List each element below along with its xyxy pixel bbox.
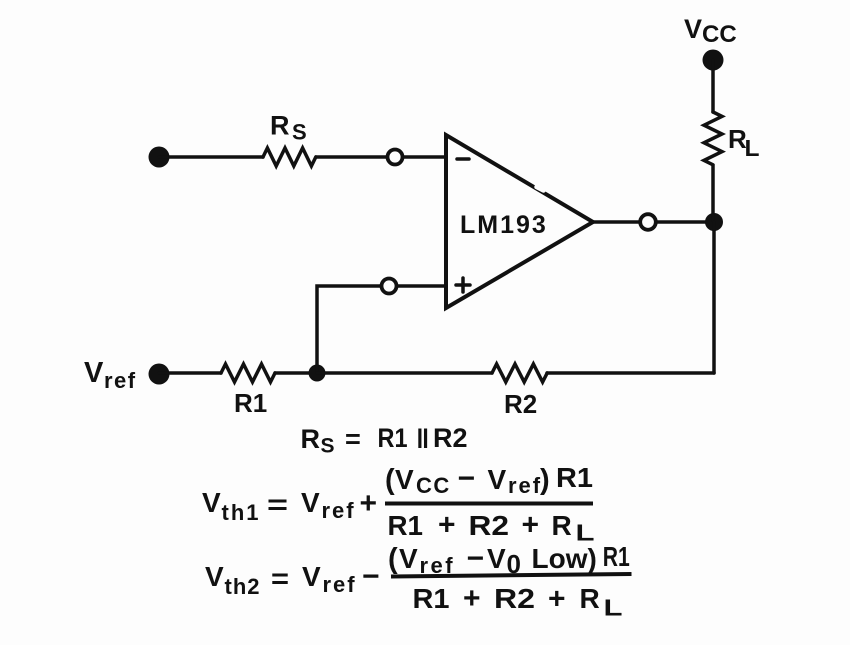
svg-text:=: = (267, 489, 288, 520)
wire Vref to R1 (159, 371, 221, 375)
svg-text:R2: R2 (494, 583, 535, 614)
svg-text:V: V (399, 543, 418, 574)
svg-text:S: S (292, 120, 307, 145)
svg-text:R1: R1 (388, 510, 424, 541)
label RL (728, 124, 760, 161)
equation RS = R1 parallel R2 (301, 423, 468, 458)
label R1 (234, 388, 267, 418)
resistor R1 (221, 364, 275, 382)
label R2 (504, 389, 537, 419)
svg-text:R: R (580, 583, 600, 614)
wire input to RS (159, 155, 263, 159)
svg-text:L: L (745, 135, 760, 161)
svg-text:V: V (684, 14, 702, 44)
wire pin to op-amp plus (397, 284, 446, 288)
svg-text:R1: R1 (234, 388, 267, 418)
svg-text:R1: R1 (413, 583, 450, 614)
svg-text:+: + (522, 509, 540, 542)
output node junction (705, 213, 723, 231)
svg-text:ref: ref (104, 368, 137, 393)
wire VCC to RL (711, 60, 715, 112)
svg-text:L: L (604, 595, 623, 621)
inverting input pin (388, 150, 403, 165)
svg-text:R: R (270, 111, 290, 141)
wire RL to node (711, 166, 715, 222)
input terminal dot (149, 147, 170, 168)
svg-text:=: = (271, 563, 289, 594)
svg-text:R2: R2 (433, 423, 468, 453)
svg-text:−: − (467, 542, 485, 575)
resistor RL (704, 112, 722, 165)
svg-text:CC: CC (702, 21, 737, 48)
svg-text:R: R (301, 424, 321, 454)
svg-text:V: V (488, 464, 507, 495)
svg-text:LM193: LM193 (460, 211, 548, 239)
svg-text:−: − (362, 560, 380, 593)
svg-text:L: L (576, 520, 595, 546)
svg-text:‖: ‖ (416, 424, 429, 454)
label Vref (84, 357, 137, 393)
equation Vth2 (205, 541, 632, 621)
wire R1 to node A (275, 371, 317, 375)
svg-text:Low): Low) (532, 543, 597, 574)
wire output pin to node (657, 220, 714, 224)
resistor R2 (492, 364, 547, 382)
equation Vth1 (202, 462, 595, 546)
minus sign (457, 157, 469, 161)
svg-text:=: = (345, 424, 361, 454)
output pin circle (640, 214, 656, 230)
svg-text:+: + (463, 582, 481, 615)
svg-text:th1: th1 (222, 500, 261, 525)
svg-text:(: ( (388, 543, 398, 575)
resistor RS (263, 148, 316, 166)
svg-text:R1: R1 (556, 462, 593, 493)
svg-text:R1: R1 (378, 423, 408, 453)
svg-text:S: S (321, 435, 335, 458)
svg-text:V: V (202, 487, 221, 518)
svg-text:th2: th2 (225, 574, 261, 599)
scan gap on triangle edge (537, 187, 544, 191)
Vref terminal dot (149, 364, 170, 385)
label VCC (684, 14, 737, 48)
wire RS to inverting pin (316, 155, 387, 159)
svg-text:R2: R2 (469, 510, 510, 541)
noninverting input pin (382, 279, 397, 294)
wire pin to op-amp (403, 155, 446, 159)
VCC terminal dot (703, 50, 724, 71)
svg-text:−: − (458, 462, 476, 495)
svg-text:V: V (302, 561, 321, 592)
svg-text:CC: CC (416, 473, 451, 498)
wire R2 to feedback corner (547, 371, 714, 375)
svg-text:ref: ref (323, 572, 357, 597)
svg-text:): ) (540, 464, 550, 496)
wire node down to feedback (712, 222, 716, 373)
label RS (270, 111, 307, 145)
svg-text:R2: R2 (504, 389, 537, 419)
plus sign (456, 278, 470, 292)
output wire (593, 220, 639, 224)
svg-text:V: V (301, 487, 320, 518)
svg-text:+: + (360, 487, 378, 520)
svg-text:V: V (487, 543, 506, 574)
svg-text:+: + (548, 583, 566, 616)
svg-text:ref: ref (322, 498, 356, 523)
label LM193 (460, 211, 548, 239)
node A junction (309, 365, 326, 382)
svg-text:(: ( (385, 464, 395, 496)
svg-text:R1: R1 (603, 541, 630, 572)
svg-text:V: V (205, 561, 224, 592)
svg-text:V: V (84, 357, 104, 389)
wire node A up to noninverting pin (317, 286, 381, 373)
svg-text:R: R (552, 510, 572, 541)
wire node A to R2 (317, 371, 492, 375)
svg-text:+: + (438, 509, 456, 542)
op-amp U1 LM193 (446, 135, 593, 308)
svg-text:ref: ref (508, 473, 542, 498)
svg-text:V: V (395, 464, 414, 495)
